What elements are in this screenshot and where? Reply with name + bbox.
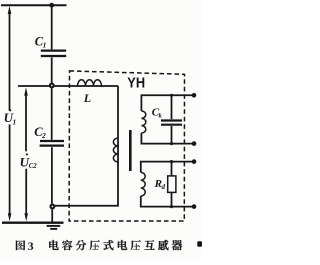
svg-text:L: L xyxy=(83,91,91,105)
svg-text:3: 3 xyxy=(28,239,34,253)
svg-text:YH: YH xyxy=(127,74,145,91)
